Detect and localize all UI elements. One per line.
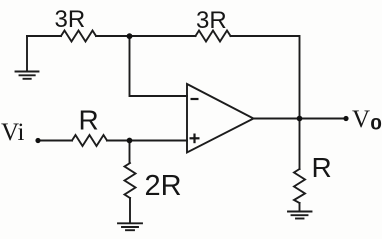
svg-text:2R: 2R [145, 170, 182, 202]
svg-text:R: R [79, 105, 99, 136]
svg-text:3R: 3R [55, 6, 86, 33]
svg-text:3R: 3R [196, 7, 227, 34]
svg-text:Vi: Vi [1, 119, 25, 146]
svg-text:0: 0 [370, 115, 382, 134]
svg-text:V: V [352, 106, 370, 133]
svg-text:R: R [312, 152, 332, 183]
